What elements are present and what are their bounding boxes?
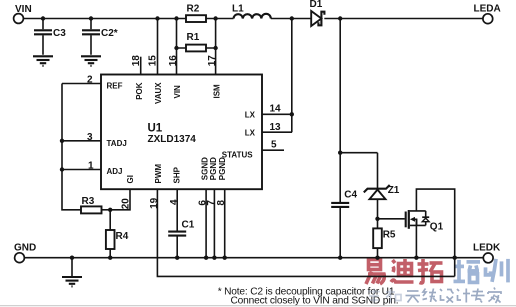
svg-text:4: 4 xyxy=(169,199,180,205)
wire pin15 drop xyxy=(157,19,159,75)
drain riser xyxy=(416,189,454,276)
svg-text:GI: GI xyxy=(126,175,135,183)
svg-text:16: 16 xyxy=(168,55,179,67)
bottom hairline xyxy=(0,305,516,307)
svg-text:19: 19 xyxy=(149,197,160,209)
char pei xyxy=(454,260,481,283)
transistor Q1 (NMOS with body diode) xyxy=(406,189,455,276)
wire pin16 drop xyxy=(176,19,178,75)
pin names top rotated xyxy=(131,55,222,104)
svg-text:PGND: PGND xyxy=(218,157,227,180)
terminal LEDA xyxy=(474,4,501,24)
svg-text:17: 17 xyxy=(207,55,218,67)
svg-text:R5: R5 xyxy=(383,230,396,241)
capacitor C2 xyxy=(82,19,118,55)
svg-text:5: 5 xyxy=(271,140,277,151)
char xun xyxy=(485,259,509,283)
resistor R3 xyxy=(81,196,110,213)
watermark big characters (drawn under circuit) xyxy=(366,259,508,284)
svg-text:2: 2 xyxy=(87,75,93,86)
capacitor C4 xyxy=(331,19,357,258)
svg-text:GND: GND xyxy=(14,243,36,254)
zener diode Z1 xyxy=(340,153,405,221)
svg-text:VAUX: VAUX xyxy=(154,82,163,104)
svg-text:8: 8 xyxy=(216,200,227,206)
IC U1 ZXLD1374 xyxy=(101,75,262,190)
svg-text:R1: R1 xyxy=(187,32,200,43)
svg-text:R2: R2 xyxy=(187,4,200,15)
svg-text:R4: R4 xyxy=(116,231,129,242)
svg-text:PWM: PWM xyxy=(154,164,163,184)
svg-text:LEDK: LEDK xyxy=(473,242,501,253)
svg-text:LX: LX xyxy=(245,110,256,119)
pin 3 TADJ xyxy=(62,132,127,148)
svg-text:TADJ: TADJ xyxy=(107,139,127,148)
svg-text:3: 3 xyxy=(87,132,93,143)
char yi xyxy=(366,260,384,285)
svg-text:13: 13 xyxy=(270,122,282,133)
pin 13 LX xyxy=(245,122,292,138)
svg-text:R3: R3 xyxy=(82,196,95,207)
svg-text:L1: L1 xyxy=(232,3,244,14)
node junction dots on top rail xyxy=(41,16,343,20)
pin 5 STATUS xyxy=(222,140,284,160)
channel bar xyxy=(408,210,410,229)
pin names bottom rotated xyxy=(120,157,227,209)
wire pin17 drop xyxy=(215,19,217,75)
watermark small characters line xyxy=(368,288,501,304)
svg-text:REF: REF xyxy=(107,82,123,91)
svg-text:C4: C4 xyxy=(344,190,357,201)
resistor R4 xyxy=(106,208,129,258)
svg-text:VIN: VIN xyxy=(173,85,182,99)
char she xyxy=(440,289,454,303)
svg-text:D1: D1 xyxy=(310,0,323,10)
char tuo xyxy=(418,259,443,283)
ground xyxy=(81,56,101,66)
svg-text:STATUS: STATUS xyxy=(222,151,253,160)
wire pin18 stub xyxy=(140,57,142,75)
wire pin20 drop xyxy=(110,189,130,210)
drain stub xyxy=(410,210,426,212)
svg-text:ISM: ISM xyxy=(213,84,222,99)
char tian xyxy=(406,291,421,303)
capacitor C1 xyxy=(168,189,195,258)
svg-text:ZXLD1374: ZXLD1374 xyxy=(148,134,197,145)
wire left bus xyxy=(60,84,81,210)
inductor L1 xyxy=(232,3,271,18)
svg-text:1: 1 xyxy=(88,161,94,172)
svg-text:SHP: SHP xyxy=(173,166,182,183)
char di xyxy=(391,259,414,282)
terminal GND xyxy=(14,243,36,263)
char zhuan xyxy=(471,289,485,303)
source drop xyxy=(415,219,417,257)
wire pin19 PWM run xyxy=(157,189,454,276)
svg-text:Z1: Z1 xyxy=(388,185,400,196)
pin 1 ADJ xyxy=(62,161,123,177)
svg-text:C3: C3 xyxy=(53,28,66,39)
resistor R5 xyxy=(373,219,396,258)
body diode xyxy=(425,211,427,226)
svg-text:PGND: PGND xyxy=(209,157,218,180)
svg-text:SGND: SGND xyxy=(200,157,209,180)
svg-text:15: 15 xyxy=(148,55,159,67)
svg-text:C1: C1 xyxy=(182,219,195,230)
ground xyxy=(33,56,53,66)
resistor R1 xyxy=(174,32,218,51)
svg-text:14: 14 xyxy=(270,104,282,115)
faint char a xyxy=(368,289,380,303)
char xian xyxy=(423,289,437,303)
wire top rail xyxy=(24,18,483,20)
wire bottom rail xyxy=(25,257,483,259)
gate bar xyxy=(405,212,407,228)
char ji xyxy=(457,289,470,303)
svg-text:U1: U1 xyxy=(148,123,163,135)
terminal LEDK xyxy=(473,242,501,262)
svg-text:VIN: VIN xyxy=(15,4,32,15)
wire pin8 drop xyxy=(224,189,226,258)
svg-text:Q1: Q1 xyxy=(430,222,444,233)
terminal VIN xyxy=(14,4,32,24)
svg-text:LEDA: LEDA xyxy=(474,4,501,15)
note text xyxy=(218,286,399,306)
capacitor C3 xyxy=(34,19,66,55)
char jia xyxy=(488,288,501,304)
source stub xyxy=(410,224,426,226)
ground xyxy=(62,256,82,287)
node dots bottom rail xyxy=(108,256,457,260)
body stub with arrow xyxy=(413,219,417,225)
pin 14 LX xyxy=(245,104,292,120)
svg-text:C2*: C2* xyxy=(101,28,118,39)
pin 2 REF xyxy=(62,75,123,91)
faint char he xyxy=(386,289,401,303)
resistor R2 xyxy=(186,4,206,22)
wire pin6 drop xyxy=(205,189,207,258)
svg-text:ADJ: ADJ xyxy=(107,167,123,176)
wire LX vertical xyxy=(290,19,294,133)
diode D1 (schottky) xyxy=(310,0,325,26)
svg-text:LX: LX xyxy=(245,128,256,137)
wire pin7 drop xyxy=(213,189,215,258)
svg-text:POK: POK xyxy=(135,82,144,100)
svg-text:18: 18 xyxy=(131,55,142,67)
